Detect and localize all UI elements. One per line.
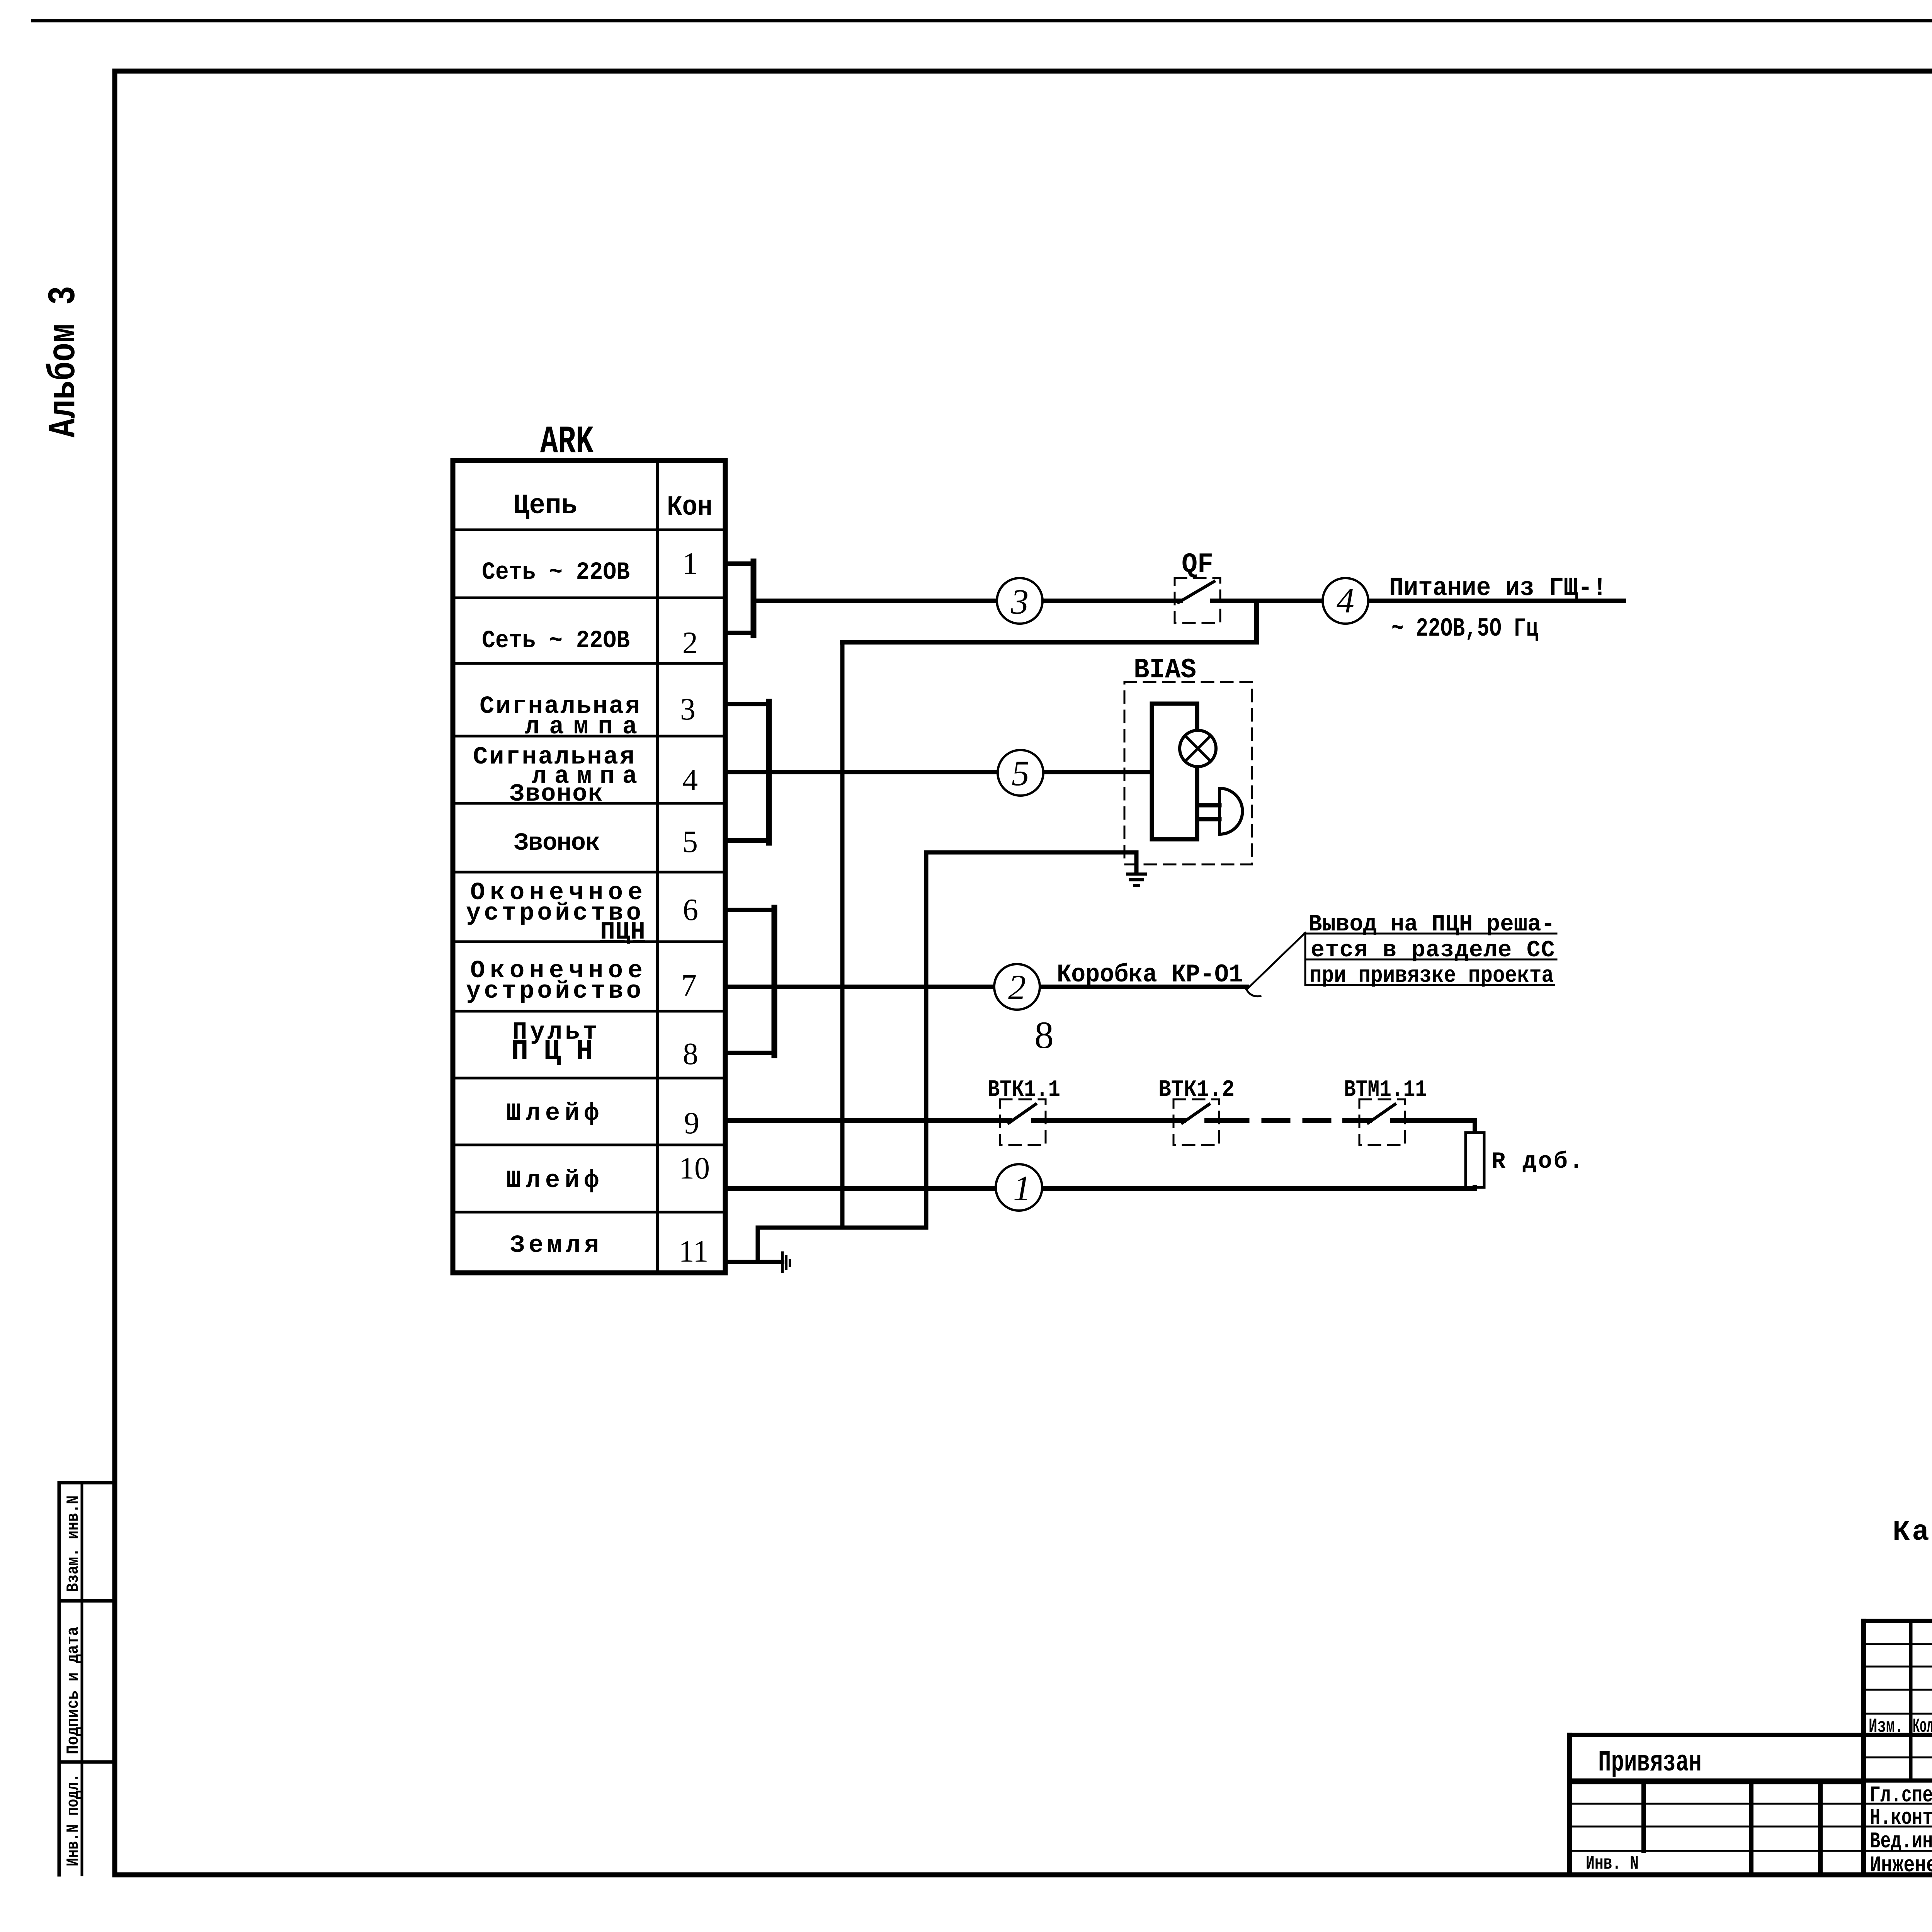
svg-text:8: 8 bbox=[1034, 1014, 1054, 1056]
sheet top edge line bbox=[33, 19, 1932, 22]
note underline 3 bbox=[1305, 984, 1554, 986]
privyazan block left edge bbox=[1567, 1735, 1572, 1875]
svg-text:8: 8 bbox=[683, 1037, 698, 1071]
note underline 2 bbox=[1305, 959, 1556, 961]
wire pin1 stub bbox=[725, 561, 753, 566]
title block row line d bbox=[1864, 1713, 1932, 1715]
title block signature row line 2 bbox=[1570, 1826, 1932, 1828]
svg-text:5: 5 bbox=[1012, 753, 1029, 793]
title block outer top edge bbox=[1864, 1619, 1932, 1623]
svg-text:Земля: Земля bbox=[510, 1232, 599, 1260]
svg-text:Кол.уч: Кол.уч bbox=[1913, 1715, 1932, 1738]
node 3 circle bbox=[997, 578, 1043, 624]
wire pin7 junction-box feed bbox=[725, 985, 1247, 989]
svg-text:1: 1 bbox=[682, 547, 698, 581]
title block row line e bbox=[1864, 1757, 1932, 1759]
ground symbol pin11 bbox=[781, 1253, 784, 1272]
connector table row line 1 bbox=[453, 529, 725, 531]
bell HA symbol bbox=[1219, 788, 1243, 834]
detector BTK1.2 blade bbox=[1182, 1104, 1209, 1123]
svg-text:Взам. инв.N: Взам. инв.N bbox=[64, 1495, 83, 1592]
svg-text:Питание из ГЩ-!: Питание из ГЩ-! bbox=[1389, 573, 1607, 603]
wire BIAS ground run bbox=[926, 852, 1136, 873]
svg-text:Сеть ~ 22ОВ: Сеть ~ 22ОВ bbox=[482, 627, 630, 655]
wire detector loop pin9 bbox=[725, 1118, 1010, 1123]
title block thick line below header bbox=[1570, 1733, 1932, 1737]
leader line to note bbox=[1247, 933, 1305, 990]
connector table row line 11 bbox=[453, 1211, 725, 1214]
title block signature row line 1 bbox=[1570, 1803, 1932, 1805]
note underline 1 bbox=[1304, 933, 1556, 935]
detector BTK1.1 blade bbox=[1009, 1104, 1036, 1123]
svg-text:11: 11 bbox=[679, 1235, 708, 1269]
svg-text:6: 6 bbox=[683, 893, 698, 927]
svg-text:Сеть ~ 22ОВ: Сеть ~ 22ОВ bbox=[482, 559, 630, 587]
connector table row line 8 bbox=[453, 1010, 725, 1013]
wire BTM1.11 to resistor bbox=[1393, 1121, 1475, 1133]
svg-text:Подпись и дата: Подпись и дата bbox=[64, 1627, 83, 1754]
svg-text:Шлейф: Шлейф bbox=[506, 1100, 599, 1128]
svg-text:Гл.спец.: Гл.спец. bbox=[1870, 1783, 1932, 1808]
svg-text:ВТК1.1: ВТК1.1 bbox=[988, 1077, 1060, 1103]
lamp HL cross bbox=[1185, 736, 1211, 761]
svg-text:Цепь: Цепь bbox=[513, 490, 577, 522]
resistor R dob bottom lead bbox=[1473, 1187, 1477, 1189]
svg-text:10: 10 bbox=[679, 1151, 710, 1185]
svg-text:7: 7 bbox=[681, 969, 697, 1003]
wire stub after BTK1.2 bbox=[1207, 1118, 1221, 1123]
svg-text:2: 2 bbox=[1008, 968, 1026, 1007]
wire BIAS ground vertical to bus bbox=[924, 852, 929, 1228]
wire neutral vertical run to ground bus bbox=[840, 642, 845, 1228]
wire neutral drop junction bbox=[1254, 601, 1259, 642]
svg-text:Н.контр.: Н.контр. bbox=[1870, 1806, 1932, 1831]
wire ground bus bbox=[758, 1226, 926, 1230]
svg-text:R доб.: R доб. bbox=[1492, 1149, 1583, 1175]
resistor R dob body bbox=[1466, 1133, 1484, 1187]
node 4 circle bbox=[1323, 578, 1368, 624]
svg-text:ПЦН: ПЦН bbox=[511, 1036, 593, 1068]
svg-text:Вед.инж.: Вед.инж. bbox=[1870, 1829, 1932, 1854]
connector table row line 3 bbox=[453, 662, 725, 665]
privyazan vertical 1 bbox=[1641, 1782, 1646, 1851]
title block row line a bbox=[1864, 1643, 1932, 1645]
node 5 circle bbox=[998, 750, 1043, 796]
svg-text:~ 22ОВ,5О Гц: ~ 22ОВ,5О Гц bbox=[1391, 614, 1538, 644]
svg-text:Кабельный журнал смотрите на л: Кабельный журнал смотрите на листе 2. bbox=[1893, 1516, 1932, 1549]
detector BTK1.1 dashed box bbox=[1000, 1099, 1046, 1145]
sidebar box left edge bbox=[58, 1483, 61, 1875]
svg-text:Шлейф: Шлейф bbox=[506, 1167, 599, 1195]
note left border bbox=[1304, 934, 1306, 985]
wire pin8 stub bbox=[725, 1051, 774, 1055]
wire pin11 earth stub bbox=[725, 1260, 782, 1264]
svg-text:4: 4 bbox=[682, 763, 698, 797]
privyazan label bottom line bbox=[1570, 1780, 1864, 1784]
bracket bar pins 3-5 bbox=[766, 702, 772, 843]
title block row line c bbox=[1864, 1689, 1932, 1691]
svg-text:ВТК1.2: ВТК1.2 bbox=[1158, 1077, 1235, 1103]
svg-text:ПЦН: ПЦН bbox=[600, 918, 645, 946]
circuit breaker QF blade bbox=[1179, 582, 1214, 602]
svg-text:Инв. N: Инв. N bbox=[1586, 1853, 1639, 1875]
svg-text:Инв.N подл.: Инв.N подл. bbox=[64, 1774, 83, 1866]
unit BIAS dashed enclosure bbox=[1124, 682, 1252, 864]
svg-text:9: 9 bbox=[684, 1106, 699, 1140]
svg-text:BIAS: BIAS bbox=[1134, 654, 1196, 686]
connector table row line 10 bbox=[453, 1144, 725, 1146]
svg-text:1: 1 bbox=[1013, 1168, 1031, 1208]
svg-text:Привязан: Привязан bbox=[1598, 1746, 1702, 1779]
node 1 circle bbox=[996, 1164, 1042, 1211]
svg-text:Коробка КР-О1: Коробка КР-О1 bbox=[1057, 960, 1243, 989]
svg-text:ется в разделе СС: ется в разделе СС bbox=[1311, 937, 1555, 964]
svg-text:ARK: ARK bbox=[540, 420, 594, 464]
detector BTM1.11 blade bbox=[1368, 1104, 1395, 1123]
ground symbol BIAS bbox=[1128, 874, 1145, 885]
svg-text:Инженер: Инженер bbox=[1870, 1853, 1932, 1878]
wire neutral horizontal run bbox=[842, 640, 1257, 645]
sidebar top edge bbox=[59, 1481, 115, 1485]
svg-text:3: 3 bbox=[680, 692, 696, 726]
connector table column divider bbox=[656, 461, 659, 1273]
svg-text:ВТМ1.11: ВТМ1.11 bbox=[1344, 1077, 1427, 1103]
title block left edge bbox=[1861, 1621, 1866, 1875]
connector table row line 4 bbox=[453, 735, 725, 738]
leader hook bbox=[1247, 990, 1260, 997]
svg-text:Изм.: Изм. bbox=[1869, 1715, 1903, 1738]
svg-text:5: 5 bbox=[682, 825, 698, 859]
svg-text:Альбом 3: Альбом 3 bbox=[43, 286, 86, 437]
wire mains line QF to end bbox=[1213, 599, 1624, 603]
privyazan vertical 2 bbox=[1749, 1782, 1753, 1875]
svg-text:Вывод на ПЦН реша-: Вывод на ПЦН реша- bbox=[1308, 912, 1555, 938]
wire pin5 stub bbox=[725, 838, 769, 843]
wire detector loop return pin10 bbox=[725, 1186, 1475, 1191]
connector table row line 7 bbox=[453, 940, 725, 943]
wire pin6 stub bbox=[725, 908, 774, 912]
wire between BTK1.1 and BTK1.2 bbox=[1033, 1118, 1184, 1123]
connector table row line 5 bbox=[453, 802, 725, 805]
svg-text:Кон: Кон bbox=[667, 492, 713, 523]
sidebar divider 1 bbox=[59, 1599, 115, 1603]
privyazan vertical 3 bbox=[1818, 1782, 1823, 1875]
detector BTK1.2 dashed box bbox=[1173, 1099, 1219, 1145]
svg-text:при привязке проекта: при привязке проекта bbox=[1310, 963, 1554, 989]
title block columns vertical Izm bbox=[1909, 1621, 1913, 1780]
wire pin4 lamp-bell feed bbox=[725, 770, 1152, 774]
circuit breaker QF dashed box bbox=[1175, 578, 1220, 623]
svg-text:2: 2 bbox=[682, 626, 698, 660]
connector table row line 2 bbox=[453, 597, 725, 599]
svg-text:4: 4 bbox=[1337, 581, 1354, 620]
wire mains line to QF bbox=[753, 599, 1180, 603]
unit BIAS internal bus outline bbox=[1152, 704, 1219, 839]
sidebar inner divider bbox=[81, 1483, 83, 1875]
title block thick line above signatures bbox=[1570, 1779, 1932, 1783]
wire earth riser bbox=[756, 1228, 760, 1262]
sidebar divider 2 bbox=[59, 1760, 115, 1764]
wire stub into BTM1.11 bbox=[1345, 1118, 1370, 1123]
lamp HL circle bbox=[1180, 730, 1216, 767]
bracket bar pins 1-2 bbox=[751, 561, 757, 635]
wire dashed continuation bbox=[1223, 1118, 1345, 1123]
svg-text:QF: QF bbox=[1182, 549, 1213, 580]
title block row line b bbox=[1864, 1666, 1932, 1668]
title block signature row line 3 bbox=[1570, 1850, 1932, 1852]
detector BTM1.11 dashed box bbox=[1359, 1099, 1405, 1145]
wire pin2 stub bbox=[725, 631, 753, 635]
svg-text:3: 3 bbox=[1010, 582, 1029, 621]
node 2 circle bbox=[994, 964, 1040, 1010]
connector table row line 6 bbox=[453, 871, 725, 874]
bracket bar pins 6-8 bbox=[772, 908, 777, 1055]
connector table ARK outer border bbox=[453, 461, 725, 1273]
wire pin3 stub bbox=[725, 702, 769, 706]
connector table row line 9 bbox=[453, 1077, 725, 1080]
svg-text:Звонок: Звонок bbox=[514, 830, 600, 857]
